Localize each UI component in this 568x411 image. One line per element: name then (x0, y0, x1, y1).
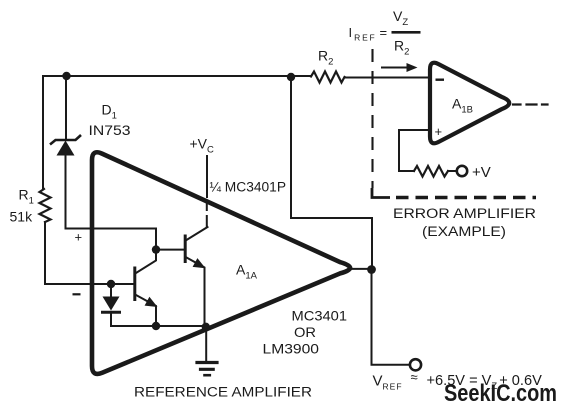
wire top rail (43, 75, 311, 77)
svg-text:ERROR AMPLIFIER: ERROR AMPLIFIER (393, 206, 536, 221)
wire A1B output dashes (513, 103, 548, 105)
wire Q2 base link (156, 249, 184, 251)
label A1B minus input (436, 78, 445, 80)
current arrow Iref (381, 63, 418, 72)
dashed box error amplifier: left edge (371, 49, 373, 188)
op-amp A1B body (430, 63, 509, 144)
transistor Q2 base bar (184, 236, 187, 262)
transistor Q2 collector (187, 227, 208, 240)
svg-text:+V: +V (472, 164, 491, 181)
svg-text:51k: 51k (10, 209, 34, 225)
svg-text:+: + (75, 230, 83, 245)
wire A1A output stub (350, 268, 368, 270)
wire zener branch from top rail (65, 76, 67, 140)
svg-text:OR: OR (294, 324, 316, 340)
wire Vref drop and terminal lead (372, 271, 410, 365)
wire left vertical to R1 (42, 76, 44, 189)
node plus-line junction dot (152, 245, 160, 253)
node bottom rail dot right (202, 323, 210, 331)
terminal +V circle (457, 166, 467, 176)
wire +Vc dashed link to Q2 collector (206, 204, 208, 227)
node top rail zener dot (62, 72, 70, 80)
wire +Vc supply (206, 156, 208, 197)
node top rail R2 dot (287, 73, 295, 81)
resistor R1 (40, 189, 51, 222)
transistor Q2 emitter (187, 258, 205, 328)
node output junction dot (367, 265, 376, 274)
op-amp A1A body (92, 152, 350, 374)
resistor R2 (311, 72, 345, 83)
zener diode D1 (50, 135, 81, 156)
svg-text:IN753: IN753 (89, 122, 131, 138)
dashed box corner (372, 188, 390, 198)
transistor Q1 emitter (136, 295, 156, 326)
node minus-line diode dot (107, 280, 115, 288)
ground (197, 361, 217, 364)
label minus input (73, 293, 81, 295)
terminal Vref circle (410, 359, 421, 370)
svg-text:MC3401: MC3401 (292, 308, 348, 324)
svg-text:(EXAMPLE): (EXAMPLE) (422, 224, 506, 239)
diode D2 inside A1A (110, 284, 112, 297)
wire R2 to A1B minus input (345, 77, 431, 79)
svg-text:+: + (435, 124, 443, 139)
wire A1B plus input feedback (399, 130, 430, 171)
svg-text:REFERENCE AMPLIFIER: REFERENCE AMPLIFIER (134, 385, 312, 400)
transistor Q1 collector (136, 250, 156, 273)
wire zener to plus corner and plus input line (66, 154, 157, 250)
svg-text:SeekIC.com: SeekIC.com (444, 380, 557, 407)
wire R1 bottom to minus line (44, 222, 46, 284)
resistor R3 feedback (414, 166, 448, 177)
svg-text:LM3900: LM3900 (263, 341, 320, 357)
ground stem (205, 327, 207, 361)
wire minus input line (45, 283, 134, 285)
dashed box bottom edge (396, 196, 536, 200)
node bottom rail dot left (152, 322, 160, 330)
svg-text:¼ MC3401P: ¼ MC3401P (210, 180, 287, 195)
transistor Q1 base bar (133, 268, 136, 300)
wire output jog from top rail (291, 77, 372, 266)
wire bottom rail (111, 325, 206, 327)
